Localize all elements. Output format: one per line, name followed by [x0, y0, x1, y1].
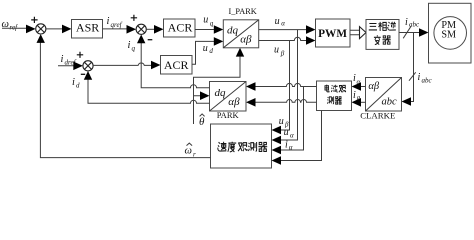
wire PARK i_d feedback to SJ2 with hop: [88, 79, 210, 103]
svg-text:q: q: [132, 45, 136, 53]
svg-text:αβ: αβ: [240, 33, 252, 45]
open arrow into inverter: [360, 27, 367, 39]
summing junction SJ3: [136, 24, 146, 34]
svg-text:α: α: [281, 20, 285, 28]
block three-phase inverter: [366, 20, 399, 50]
wire inverter to motor: [399, 32, 420, 34]
wire u_alpha tap to observer: [281, 30, 298, 140]
block ASR: [72, 20, 103, 39]
wire CLARKE i_beta to current observer: [361, 101, 366, 103]
svg-text:i: i: [418, 72, 421, 83]
arrow i_beta into observer: [272, 156, 282, 165]
minus sign at SJ3: [148, 39, 153, 41]
wire i_abc measurement tap down: [411, 33, 414, 102]
wire i_alpha tap to observer: [281, 87, 304, 151]
wire observer i_beta to PARK with hops: [255, 100, 317, 103]
plus sign at SJ1: [31, 17, 37, 23]
arrow theta into I_PARK bottom: [236, 48, 244, 57]
plus sign at SJ3: [131, 15, 137, 21]
svg-text:d: d: [209, 47, 213, 55]
arrow i_alpha into PARK: [246, 82, 256, 91]
arrow into ASR: [62, 25, 72, 34]
arrow u_beta into observer: [272, 126, 282, 135]
svg-text:d: d: [76, 82, 80, 90]
svg-text:ACR: ACR: [168, 21, 193, 35]
svg-text:dq: dq: [215, 87, 227, 99]
arrow into summing junction SJ1: [26, 25, 36, 34]
arrow into CLARKE: [402, 97, 412, 106]
svg-text:ACR: ACR: [164, 58, 189, 72]
wire ACR1 to I_PARK: [195, 29, 215, 31]
svg-text:i: i: [107, 16, 110, 27]
arrow i_q into SJ3: [137, 35, 145, 44]
slash on i_abc tap: [409, 72, 416, 80]
arrow omega_r into SJ1: [37, 34, 45, 43]
arrow into SJ2: [73, 62, 83, 71]
wire u_beta I_PARK to PWM with hop: [259, 37, 307, 40]
block ACR2: [161, 56, 193, 75]
plus sign at SJ2: [77, 52, 83, 58]
wire omega_r feedback to SJ1: [40, 42, 210, 157]
arrow into SJ3: [127, 25, 137, 34]
svg-text:u: u: [279, 116, 284, 127]
wire PWM to inverter double line: [350, 30, 360, 34]
svg-text:ω: ω: [185, 146, 192, 157]
svg-text:u: u: [275, 16, 280, 27]
wire CLARKE i_alpha to current observer: [361, 86, 366, 88]
svg-text:α: α: [290, 132, 294, 140]
svg-text:i: i: [128, 40, 131, 51]
arrow into ACR2: [151, 61, 161, 70]
wire u_beta tap to observer: [281, 41, 290, 131]
arrow i_d into SJ2: [84, 71, 92, 80]
wire SJ2 to ACR2: [93, 63, 152, 65]
arrow i_beta into PARK: [246, 98, 256, 107]
svg-text:u: u: [284, 127, 289, 138]
arrow i_beta into current observer: [352, 98, 362, 107]
arrow into PWM ua: [306, 25, 316, 34]
wire observer i_alpha to PARK with hops: [255, 83, 317, 86]
arrow into I_PARK uq: [214, 25, 224, 34]
arrow into motor: [419, 28, 429, 37]
svg-text:q: q: [210, 20, 214, 28]
block PMSM motor: [429, 3, 472, 63]
svg-text:θ: θ: [199, 116, 205, 128]
svg-text:i: i: [61, 54, 64, 65]
svg-text:CLARKE: CLARKE: [360, 111, 395, 121]
svg-text:u: u: [203, 43, 208, 54]
arrow into PWM ub: [306, 36, 316, 45]
arrow i_alpha into observer: [272, 146, 282, 155]
wire omega_ref input: [2, 27, 27, 29]
svg-text:u: u: [203, 15, 208, 26]
arrow theta into PARK: [200, 91, 210, 100]
slash three-phase mark: [403, 26, 411, 38]
svg-text:qref: qref: [111, 21, 123, 29]
arrow into I_PARK ud: [214, 37, 224, 46]
svg-text:i: i: [72, 77, 75, 88]
svg-text:β: β: [280, 49, 285, 57]
svg-text:i: i: [285, 139, 288, 150]
svg-text:PARK: PARK: [217, 110, 240, 120]
svg-text:dq: dq: [227, 25, 239, 37]
svg-text:u: u: [274, 45, 279, 56]
svg-text:PWM: PWM: [318, 28, 347, 40]
svg-text:ref: ref: [10, 24, 19, 32]
svg-text:abc: abc: [422, 77, 433, 85]
block current observer: [317, 81, 352, 111]
wire SJ3 to ACR1: [146, 28, 155, 30]
summing junction SJ2: [83, 61, 93, 71]
svg-text:abc: abc: [382, 96, 398, 107]
wire theta_hat net: [194, 57, 241, 125]
wire i_dref input: [58, 65, 75, 67]
arrow u_alpha into observer: [272, 136, 282, 145]
wire ASR to SJ3: [103, 28, 128, 30]
svg-text:αβ: αβ: [368, 81, 380, 92]
arrow i_alpha into current observer: [352, 82, 362, 91]
minus sign at SJ2: [81, 73, 85, 75]
block CLARKE ab/abc: [366, 78, 402, 112]
block ACR1: [164, 19, 196, 37]
wire i_beta tap to observer: [281, 111, 322, 161]
block speed observer: [211, 124, 272, 168]
wire u_alpha I_PARK to PWM: [259, 29, 307, 31]
arrow into ACR1: [154, 25, 164, 34]
svg-text:I_PARK: I_PARK: [228, 7, 256, 16]
svg-text:SM: SM: [441, 30, 456, 41]
wire PARK i_q feedback to SJ3 with hop: [141, 43, 209, 88]
wire SJ1 to ASR: [46, 28, 63, 30]
summing junction SJ1: [36, 24, 46, 34]
block PWM: [316, 19, 351, 47]
block I_PARK dq/ab: [223, 20, 258, 48]
wire ACR2 to I_PARK ud: [192, 41, 215, 64]
block PARK dq/ab: [210, 82, 247, 112]
svg-text:i: i: [405, 17, 408, 28]
svg-text:αβ: αβ: [228, 96, 240, 108]
svg-text:ASR: ASR: [76, 21, 99, 35]
